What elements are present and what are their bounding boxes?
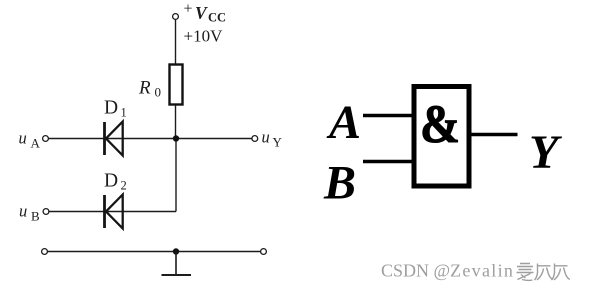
terminal uA xyxy=(43,136,49,142)
svg-text:+: + xyxy=(184,1,193,18)
ground xyxy=(162,252,192,276)
label R0 xyxy=(138,78,161,100)
svg-text:u: u xyxy=(19,202,27,221)
terminal ground bus left xyxy=(42,249,48,255)
wire resistor to node Y xyxy=(175,106,177,139)
svg-text:R: R xyxy=(138,78,151,99)
wire node to D2 vertical xyxy=(175,139,177,212)
watermark chinese chars xyxy=(517,264,570,281)
terminal +Vcc xyxy=(173,14,179,20)
svg-text:D: D xyxy=(104,98,118,119)
svg-text:u: u xyxy=(262,128,270,147)
wire Vcc vertical xyxy=(175,20,177,64)
wire uB horizontal xyxy=(49,211,176,213)
diode D1 xyxy=(105,122,123,156)
node junction at uY line xyxy=(173,135,179,141)
svg-text:D: D xyxy=(104,171,118,192)
svg-text:0: 0 xyxy=(155,85,162,100)
resistor R0 xyxy=(170,65,183,105)
node junction at ground bus xyxy=(173,248,179,254)
svg-text:Y: Y xyxy=(529,126,562,179)
label +Vcc xyxy=(184,1,227,25)
label uA xyxy=(19,129,41,151)
svg-text:A: A xyxy=(326,96,361,149)
wire ground bus xyxy=(48,251,261,253)
svg-text:Y: Y xyxy=(273,135,283,150)
terminal uY xyxy=(252,136,258,142)
svg-text:B: B xyxy=(323,157,356,210)
svg-text:&: & xyxy=(420,94,460,154)
svg-text:1: 1 xyxy=(121,106,127,120)
svg-text:B: B xyxy=(31,209,40,224)
terminal ground bus right xyxy=(261,249,267,255)
svg-text:u: u xyxy=(19,129,27,148)
svg-text:A: A xyxy=(31,136,41,151)
svg-text:+10V: +10V xyxy=(184,27,224,46)
svg-text:CC: CC xyxy=(208,11,226,25)
svg-text:2: 2 xyxy=(121,179,127,193)
diode D2 xyxy=(105,195,123,229)
label D1 xyxy=(104,98,127,120)
wire uA to uY horizontal xyxy=(49,138,253,140)
gate U1 box xyxy=(414,87,469,187)
svg-text:CSDN @Zevalin: CSDN @Zevalin xyxy=(381,261,514,281)
terminal uB xyxy=(43,209,49,215)
label uB xyxy=(19,202,40,224)
label D2 xyxy=(104,171,127,193)
gate input A wire xyxy=(363,114,412,118)
gate output wire xyxy=(472,133,518,137)
label uY xyxy=(262,128,283,150)
svg-text:V: V xyxy=(195,3,208,23)
gate input B wire xyxy=(363,160,412,164)
